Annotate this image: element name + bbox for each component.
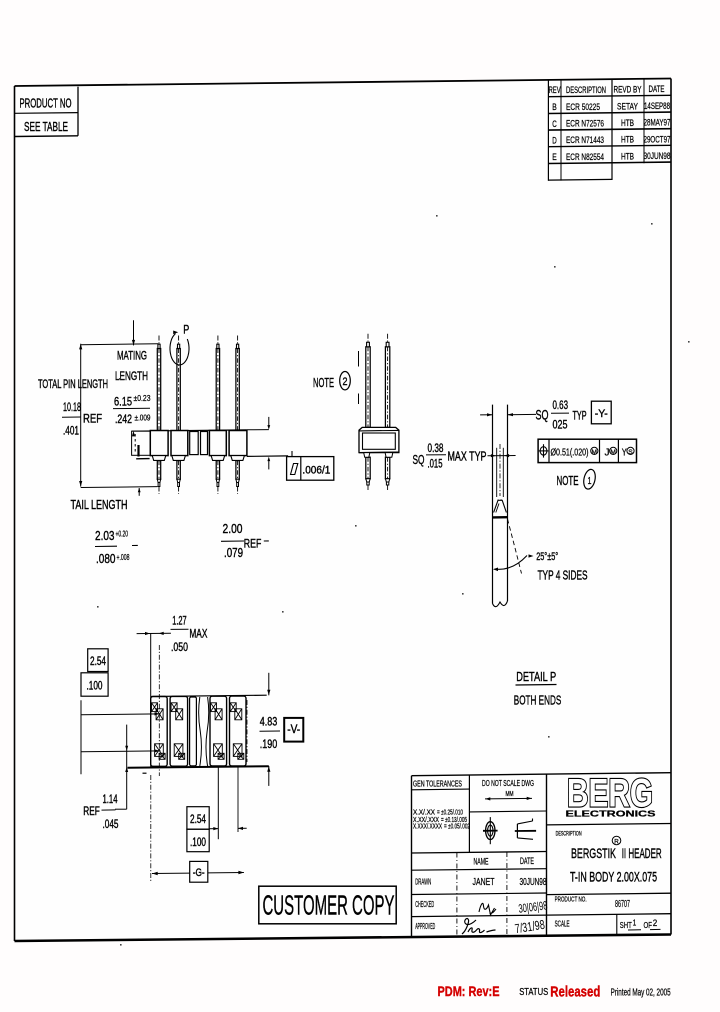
datum -Y- box [591, 401, 611, 424]
svg-text:4.83: 4.83 [260, 716, 278, 728]
svg-text:OF: OF [644, 920, 653, 930]
svg-text:+0.20: +0.20 [116, 529, 129, 539]
side view break block b [201, 432, 208, 455]
svg-text:Ø0.51(.020): Ø0.51(.020) [551, 446, 589, 458]
third angle projection symbol [486, 822, 495, 840]
svg-text:1: 1 [588, 476, 592, 487]
description cell [547, 824, 672, 825]
svg-text:HTB: HTB [621, 118, 634, 129]
svg-text:2.00: 2.00 [223, 521, 243, 536]
svg-text:2.54: 2.54 [190, 814, 206, 826]
svg-text:SHT: SHT [620, 920, 632, 930]
svg-text:.190: .190 [260, 739, 278, 751]
svg-text:GEN TOLERANCES: GEN TOLERANCES [413, 779, 462, 788]
svg-text:APPROVED: APPROVED [415, 921, 435, 931]
svg-text:DESCRIPTION: DESCRIPTION [566, 85, 606, 95]
svg-text:ECR 50225: ECR 50225 [566, 102, 600, 113]
svg-text:HTB: HTB [621, 151, 634, 162]
side view pin 2 [177, 349, 180, 431]
dimension sq 0.63: dimension line [480, 414, 492, 416]
svg-text:M: M [610, 449, 616, 456]
svg-text:REF: REF [83, 804, 100, 818]
drawn row [412, 893, 547, 895]
front view pin 2 [385, 347, 389, 428]
bottom view pin pads column 4 top row [230, 703, 236, 712]
svg-text:+.008: +.008 [117, 552, 130, 562]
svg-text:1: 1 [633, 919, 637, 928]
bottom view body left edge / extension [150, 634, 152, 767]
svg-text:10.18: 10.18 [63, 400, 81, 414]
dimension sq 0.38 leader into detail pin [488, 455, 516, 457]
bottom view pin pads column 3 bottom row [214, 744, 223, 757]
svg-text:-V-: -V- [287, 724, 300, 736]
approved date handwritten [514, 917, 546, 937]
bottom view break lines [199, 697, 202, 766]
svg-text:T-IN BODY 2.00X.075: T-IN BODY 2.00X.075 [570, 868, 657, 884]
svg-text:CHECKED: CHECKED [415, 899, 434, 909]
svg-text:D: D [552, 135, 557, 146]
bottom view pin pads column 1 bottom row [155, 744, 164, 757]
svg-text:.100: .100 [190, 837, 206, 849]
dimension 1.27 max dimension line [137, 632, 171, 634]
side view pin 1 centerline [158, 336, 160, 345]
customer copy stamp [259, 886, 396, 924]
svg-text:30JUN98: 30JUN98 [644, 151, 671, 162]
svg-text:PRODUCT NO: PRODUCT NO [20, 96, 72, 111]
svg-text:.006/1: .006/1 [302, 465, 330, 477]
svg-text:25°±5°: 25°±5° [536, 551, 558, 563]
svg-text:29OCT97: 29OCT97 [644, 134, 671, 145]
dimension 2.54 row pitch leaders [80, 700, 82, 774]
svg-text:TYP 4 SIDES: TYP 4 SIDES [538, 569, 588, 583]
svg-text:28MAY97: 28MAY97 [644, 118, 671, 129]
title block gen tolerances cell [468, 775, 470, 852]
bottom view pin pads column 2 bottom row [174, 744, 183, 757]
detail P chamfer tip [494, 500, 507, 512]
bottom view body bottom edge [128, 766, 269, 768]
svg-text:DETAIL P: DETAIL P [516, 669, 556, 684]
side view foot under pin 4 [231, 456, 245, 461]
side view foot under pin 3 [211, 456, 225, 461]
flatness flag .006/1 [287, 457, 334, 481]
svg-text:.100: .100 [87, 681, 103, 693]
small tick left of bottom view [143, 772, 147, 774]
bottom view pin pads column 3 top row [211, 703, 217, 712]
datum -G- box and arrows [152, 872, 190, 874]
side view pin 3 centerline [217, 336, 219, 345]
svg-text:= ±0.05/.002: = ±0.05/.002 [444, 821, 470, 830]
front view pin 1 centerline [367, 334, 369, 343]
svg-text:±0.23: ±0.23 [134, 393, 151, 403]
svg-text:M: M [592, 449, 598, 456]
svg-text:.050: .050 [171, 640, 188, 654]
svg-text:ECR N71443: ECR N71443 [566, 135, 604, 146]
svg-text:DATE: DATE [649, 84, 665, 94]
svg-text:JANET: JANET [473, 877, 495, 888]
detail P pin outline [492, 405, 494, 604]
svg-text:REF: REF [83, 412, 102, 426]
svg-text:TYP: TYP [573, 409, 587, 423]
svg-text:Printed May 02, 2005: Printed May 02, 2005 [611, 987, 671, 998]
svg-text:E: E [552, 152, 557, 163]
front view pin 1 [366, 347, 370, 428]
dimension ref 1.14 [126, 725, 128, 810]
svg-text:SEE TABLE: SEE TABLE [24, 119, 68, 134]
front view mating zone line [358, 351, 360, 367]
dimension tail length: tick [138, 488, 140, 496]
datum -G- axis [150, 775, 152, 882]
side view break block a [190, 432, 199, 455]
svg-text:HTB: HTB [621, 135, 634, 146]
svg-text:PRODUCT NO.: PRODUCT NO. [555, 895, 587, 904]
svg-text:ECR N72576: ECR N72576 [566, 119, 604, 130]
svg-text:Y: Y [622, 446, 627, 458]
svg-text:REV: REV [549, 85, 561, 95]
side view pin 4 [236, 349, 239, 431]
svg-text:MAX: MAX [189, 627, 207, 641]
svg-text:2.54: 2.54 [90, 656, 106, 668]
rotation arrow arc around pin 2 [170, 334, 189, 365]
bottom view pin column 1 centerline [158, 645, 160, 776]
bottom view body blocks [151, 697, 168, 767]
note 2 circled digit [340, 372, 351, 390]
dimension total pin length: dimension line [80, 344, 82, 487]
svg-text:1.14: 1.14 [103, 794, 118, 806]
svg-text:30JUN98: 30JUN98 [520, 877, 547, 888]
svg-text:S: S [628, 449, 633, 456]
product no table [77, 87, 79, 136]
svg-text:DATE: DATE [520, 856, 534, 866]
bottom view pin pads column 4 bottom row [233, 744, 242, 757]
side view body block 2 [171, 431, 188, 456]
dimension 2.54 row pitch boxes [88, 649, 108, 672]
do not scale dwg cell [469, 810, 546, 813]
bottom view pin pads column 2 top row [171, 703, 177, 712]
dimension body height ticks right of side view [247, 429, 269, 431]
svg-text:2: 2 [343, 376, 348, 388]
feature control frame [538, 439, 636, 462]
checked row [412, 915, 547, 917]
side view pin 3 [216, 349, 219, 431]
svg-text:LENGTH: LENGTH [115, 369, 148, 383]
bottom view pin pads column 1 top row [152, 703, 158, 712]
svg-text:.080: .080 [96, 551, 116, 566]
bottom view last column centerline [246, 700, 248, 762]
flatness flag leader tick [291, 451, 293, 457]
svg-text:0.38: 0.38 [428, 441, 444, 455]
svg-text:.045: .045 [103, 819, 119, 831]
svg-text:SETAY: SETAY [617, 101, 638, 112]
svg-text:DESCRIPTION: DESCRIPTION [556, 831, 582, 838]
svg-text:86707: 86707 [615, 898, 630, 910]
product no cell [547, 893, 672, 894]
svg-text:ECR N82554: ECR N82554 [566, 152, 604, 163]
side view phantom end block [132, 431, 151, 455]
revision table grid [547, 80, 549, 181]
svg-text:NAME: NAME [474, 857, 489, 867]
svg-text:BOTH ENDS: BOTH ENDS [514, 693, 562, 708]
svg-text:6.15: 6.15 [114, 395, 132, 409]
checked date handwritten [518, 898, 549, 915]
side view pin 1 [157, 349, 160, 431]
svg-text:1.27: 1.27 [172, 616, 187, 628]
svg-text:B: B [552, 102, 557, 113]
svg-text:Released: Released [550, 984, 600, 1001]
svg-text:DRAWN: DRAWN [415, 876, 431, 886]
svg-text:NOTE: NOTE [313, 375, 334, 390]
position symbol [540, 447, 547, 455]
svg-text:-G-: -G- [193, 867, 205, 879]
svg-text:DO NOT SCALE DWG: DO NOT SCALE DWG [482, 778, 534, 788]
chamfer 25 deg leader [508, 519, 522, 574]
svg-text:X.XXX/.XXXX: X.XXX/.XXXX [413, 821, 442, 830]
svg-text:±.009: ±.009 [135, 413, 151, 423]
svg-text:.079: .079 [224, 545, 243, 560]
svg-text:STATUS: STATUS [519, 987, 548, 998]
svg-text:MATING: MATING [117, 349, 147, 363]
side view body top edge [132, 430, 247, 431]
svg-text:.242: .242 [115, 412, 132, 426]
svg-text:CUSTOMER COPY: CUSTOMER COPY [263, 890, 395, 921]
checked signature [479, 903, 496, 915]
svg-text:C: C [552, 119, 557, 130]
svg-text:NOTE: NOTE [557, 473, 579, 488]
svg-text:SQ: SQ [413, 452, 425, 467]
front view feet [364, 453, 370, 458]
side view pin 4 centerline [237, 336, 239, 345]
side view pin 2 centerline [178, 336, 180, 345]
svg-text:-Y-: -Y- [595, 408, 608, 420]
svg-text:R: R [614, 838, 619, 845]
title block outline [411, 776, 413, 938]
svg-text:TAIL LENGTH: TAIL LENGTH [71, 498, 128, 512]
front view pin 2 centerline [387, 334, 389, 343]
detail P pin tail square lines [496, 448, 498, 497]
scale / sheet cell [547, 914, 672, 915]
svg-text:2.03: 2.03 [95, 528, 115, 543]
name date header row [412, 852, 547, 854]
drawing sheet border frame [15, 79, 672, 942]
side view body block 1 [150, 431, 168, 456]
svg-text:.401: .401 [63, 424, 79, 438]
approved signature [462, 919, 496, 934]
side view body block 3 [209, 431, 226, 456]
side view body block 4 [229, 431, 247, 456]
side view foot under pin 1 [152, 456, 166, 461]
svg-text:P: P [183, 323, 189, 337]
svg-text:J: J [605, 446, 610, 458]
svg-text:025: 025 [553, 418, 568, 432]
svg-text:SCALE: SCALE [555, 920, 570, 929]
svg-text:BERGSTIK: BERGSTIK [571, 845, 616, 861]
svg-text:MM: MM [506, 791, 514, 798]
svg-text:.015: .015 [428, 457, 443, 471]
svg-text:II HEADER: II HEADER [622, 845, 662, 861]
front view body [359, 427, 399, 452]
projection cone symbol [515, 830, 536, 832]
svg-text:PDM: Rev:E: PDM: Rev:E [438, 983, 500, 999]
dimension 2.54 column pitch [217, 766, 219, 840]
svg-text:REVD BY: REVD BY [614, 84, 642, 94]
svg-text:SQ: SQ [536, 408, 549, 423]
svg-text:14SEP88: 14SEP88 [644, 101, 670, 112]
svg-text:REF: REF [244, 537, 261, 551]
svg-text:ELECTRONICS: ELECTRONICS [566, 809, 656, 819]
dimension total pin length: extension lines [81, 343, 159, 346]
svg-text:TOTAL PIN LENGTH: TOTAL PIN LENGTH [38, 377, 108, 391]
scan specks [436, 215, 438, 217]
svg-text:0.63: 0.63 [553, 398, 569, 412]
dimension mating length: dimension line [133, 320, 135, 345]
dimension 4.83 / datum -V- [268, 673, 270, 696]
svg-text:MAX TYP: MAX TYP [448, 450, 487, 464]
detail P break line [493, 601, 508, 607]
side view foot under pin 2 [172, 456, 186, 461]
bottom view body top edge [151, 695, 267, 696]
svg-text:2: 2 [653, 918, 658, 928]
